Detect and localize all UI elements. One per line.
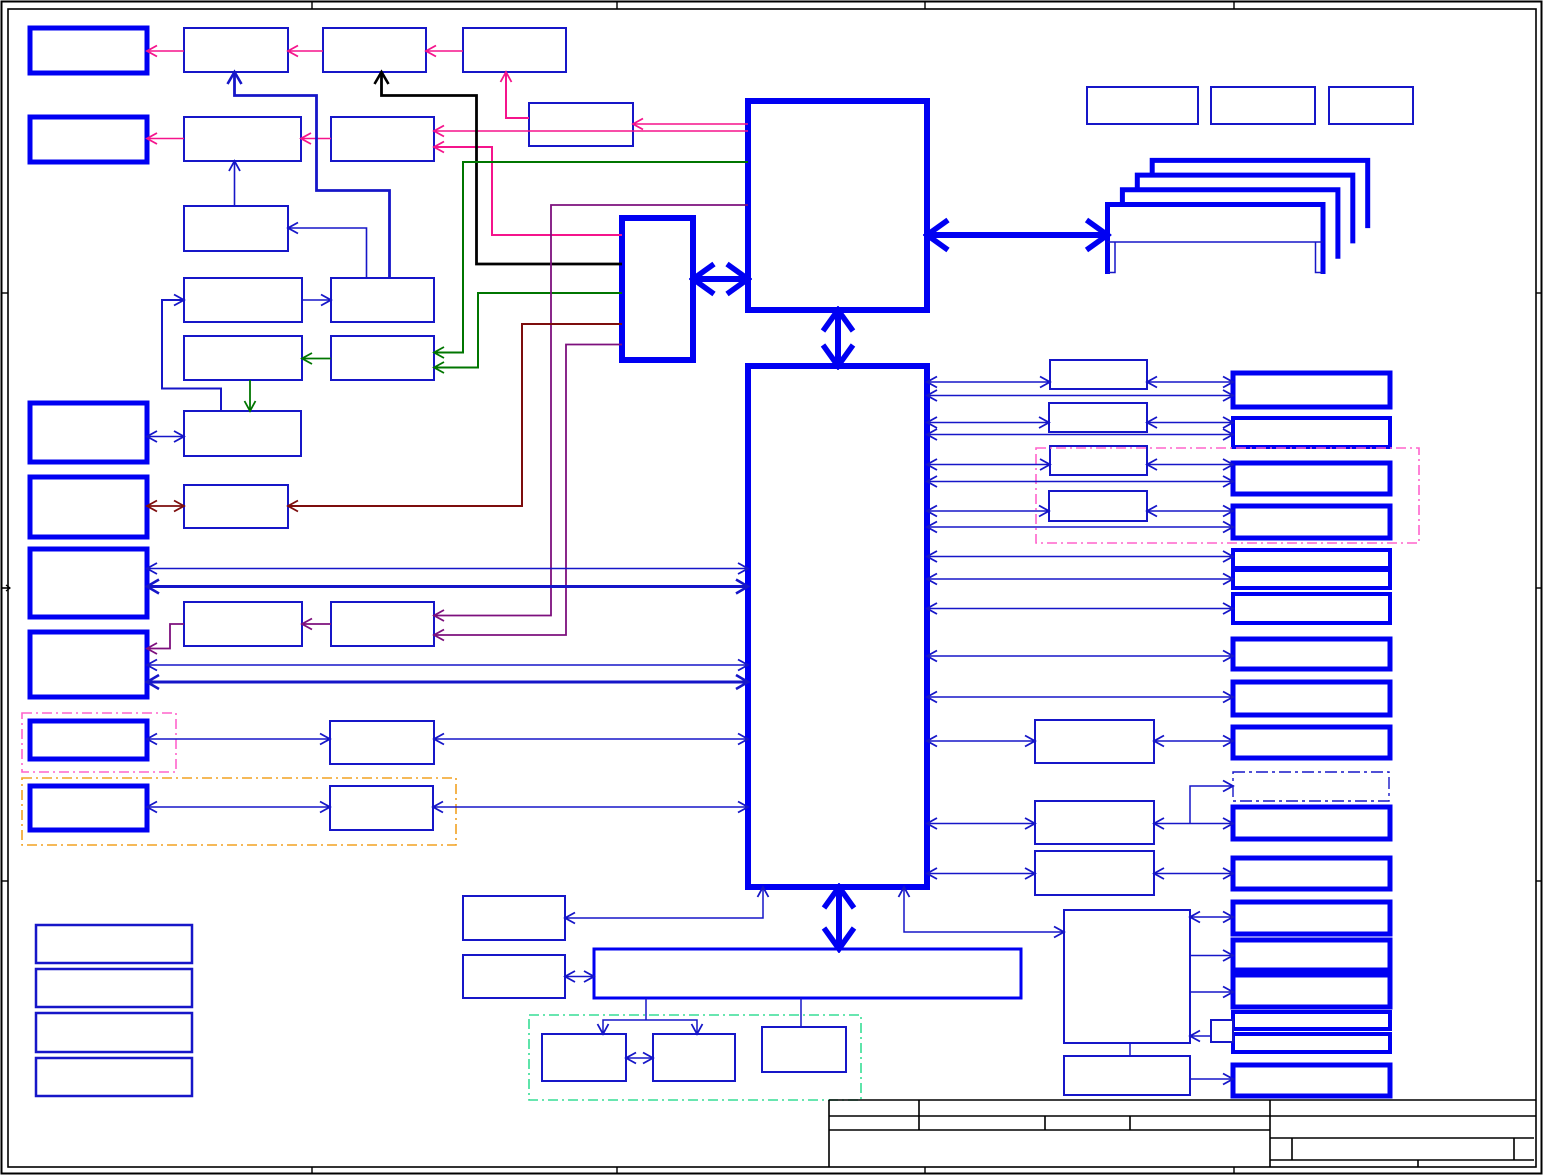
- wire pink B3 to B2: [301, 138, 331, 140]
- block D1: [184, 278, 302, 322]
- wire blue D2 to C1: [288, 228, 367, 278]
- block R15 (right column): [1233, 975, 1390, 1007]
- wire blue SB to M7: [927, 873, 1035, 875]
- block SQ (small connector box): [1211, 1020, 1233, 1042]
- wire blue SB to R8: [927, 655, 1233, 657]
- wire blue M2 to R2: [1147, 422, 1233, 424]
- frame zone tick right: [1536, 880, 1543, 882]
- wire blue SB to R7: [927, 608, 1233, 610]
- wire blue BAR to J3 stub: [800, 998, 802, 1027]
- block L1 (bottom left stack): [36, 925, 192, 963]
- wire blue F4 to SB thin: [147, 664, 748, 666]
- wire blue SB to M1: [927, 381, 1050, 383]
- wire blue K1 to R15: [1190, 991, 1233, 993]
- memory slot 3 (rear): [1137, 175, 1353, 243]
- dashed group box pink (around F5): [22, 713, 176, 772]
- block T1: [1087, 87, 1198, 124]
- block R5 (right column): [1233, 550, 1390, 568]
- frame zone tick top: [311, 2, 313, 10]
- wire thick CPU to memory slots bus: [927, 232, 1108, 238]
- wire thick EC to CPU bus: [693, 276, 748, 282]
- block F2 (left thick): [30, 477, 147, 537]
- wire blue H2 to SB: [433, 806, 748, 808]
- wire pink A2 to A1: [147, 50, 184, 52]
- wire purple G1b to G1a: [302, 623, 331, 625]
- frame zone tick bottom: [924, 1167, 926, 1175]
- block T2: [1211, 87, 1315, 124]
- wire blue F6 to H2: [147, 806, 330, 808]
- wire blue K2 to R18: [1190, 1078, 1233, 1080]
- wire maroon E2 to F2: [147, 505, 184, 507]
- wire thick SB to BAR bus: [836, 887, 842, 949]
- block R9 (right column): [1233, 682, 1390, 715]
- wire blue I2 to BAR: [565, 976, 594, 978]
- wire purple EC to G1b: [434, 345, 622, 636]
- block A4: [463, 28, 566, 72]
- block F6 (left thick in orange dashed group): [30, 786, 147, 830]
- block R8 (right column): [1233, 639, 1390, 669]
- block R14 (right column): [1233, 940, 1390, 970]
- block U2 EC (tall narrow thick): [622, 218, 693, 360]
- wire pink B2 to B1: [147, 138, 184, 140]
- wire blue SB to M2: [927, 422, 1049, 424]
- block K1 (bottom right large): [1064, 910, 1190, 1043]
- memory slot 2 (rear): [1122, 190, 1338, 259]
- frame zone tick left: [2, 292, 9, 294]
- title block right detail: [1270, 1138, 1534, 1167]
- frame zone tick right: [1536, 292, 1543, 294]
- wire green D4 to D3: [302, 358, 331, 360]
- block M4: [1049, 491, 1147, 521]
- wire blue SB to R9: [927, 696, 1233, 698]
- wire blue SB to R3 direct: [927, 481, 1233, 483]
- dashed box RD (right column reserved): [1233, 772, 1389, 801]
- wire green CPU to D4: [434, 162, 748, 353]
- wire blue K1 to R13: [1190, 916, 1233, 918]
- wire blue M4 to R4: [1147, 510, 1233, 512]
- wire blue SB to R6: [927, 578, 1233, 580]
- wire blue split to J1: [603, 1020, 646, 1034]
- block R4 (right column): [1233, 506, 1390, 538]
- block M1: [1050, 360, 1147, 389]
- wire blue D1 to D2: [302, 299, 331, 301]
- wire blue SQ to K1: [1190, 1035, 1211, 1037]
- wire blue F3 to SB thin: [147, 568, 748, 570]
- memory slot 4 (rear): [1152, 160, 1368, 228]
- wire blue M5 to R10: [1154, 740, 1233, 742]
- frame zone tick bottom: [616, 1167, 618, 1175]
- wire pink A3 to A2: [288, 50, 323, 52]
- wire blue SB to R1 direct: [927, 395, 1233, 397]
- frame zone tick top: [1233, 2, 1235, 10]
- wire pink CPU to B3: [434, 130, 748, 132]
- frame zone tick left: [2, 880, 9, 882]
- wire blue BAR to J1/J2 split: [645, 998, 647, 1020]
- wire green D3 to E1: [249, 380, 251, 411]
- block R10 (right column): [1233, 727, 1390, 758]
- block L3 (bottom left stack): [36, 1013, 192, 1052]
- block R6 (right column): [1233, 570, 1390, 588]
- block D4: [331, 336, 434, 380]
- wire purple G1a to F4: [147, 624, 184, 649]
- wire blue C1 to B2: [234, 161, 236, 206]
- block R18 (right column): [1233, 1065, 1390, 1096]
- block F4 (left thick): [30, 632, 147, 697]
- frame zone tick top: [616, 2, 618, 10]
- wire blue SB to M5: [927, 740, 1035, 742]
- wire black EC to A3: [382, 72, 623, 264]
- wire blue H1 to SB: [434, 738, 748, 740]
- block A3: [323, 28, 426, 72]
- block R1 (right column): [1233, 373, 1390, 407]
- frame zone tick right: [1536, 587, 1543, 589]
- dashed group box orange (around F6/H2): [22, 778, 456, 845]
- block B3: [331, 117, 434, 161]
- wire blue SB to M4: [927, 510, 1049, 512]
- wire blue SB to R5: [927, 556, 1233, 558]
- wire blue SB to K1: [904, 887, 1064, 932]
- block H2: [330, 786, 433, 830]
- wire pink EC to B3: [434, 147, 622, 235]
- wire blue M3 to R3: [1147, 464, 1233, 466]
- wire blue SB to R4 direct: [927, 526, 1233, 528]
- frame center mark left: [2, 585, 11, 591]
- block R12 (right column): [1233, 858, 1390, 889]
- block F5 (left thick in pink dashed group): [30, 721, 147, 759]
- block M5: [1035, 720, 1154, 763]
- block R3 (right column): [1233, 463, 1390, 494]
- block M6: [1035, 801, 1154, 844]
- frame zone tick top: [924, 2, 926, 10]
- block L2 (bottom left stack): [36, 969, 192, 1007]
- block G1b: [331, 602, 434, 646]
- block R7 (right column): [1233, 594, 1390, 623]
- block M7: [1035, 851, 1154, 895]
- wire maroon EC to E2: [288, 324, 622, 506]
- wire blue M7 to R12: [1154, 873, 1233, 875]
- memory slot 1 (front): [1108, 205, 1324, 275]
- wire blue F4 to SB thick: [147, 681, 748, 684]
- wire blue split to J2: [646, 1020, 697, 1034]
- wire pink CPU to SM: [633, 123, 748, 125]
- memory slot 1 inner line: [1108, 242, 1324, 273]
- wire blue M6 to R11: [1154, 823, 1233, 825]
- wire blue E1 to D1 loop: [162, 300, 221, 411]
- title block outline: [829, 1100, 1536, 1167]
- block U1 CPU (large thick): [748, 101, 927, 310]
- block T3: [1329, 87, 1413, 124]
- block L4 (bottom left stack): [36, 1058, 192, 1096]
- block U3 south bridge (large thick): [748, 366, 927, 887]
- block J3: [762, 1027, 846, 1072]
- block E2: [184, 485, 288, 528]
- wire blue F3 to SB thick: [147, 585, 748, 588]
- block I2: [463, 955, 565, 998]
- wire blue K1 to K2 stub: [1129, 1043, 1131, 1056]
- block D3: [184, 336, 302, 380]
- frame zone tick left: [2, 587, 9, 589]
- block F1 (left thick): [30, 403, 147, 462]
- block R17 (right column): [1233, 1034, 1390, 1052]
- wire blue M1 to R1: [1147, 381, 1233, 383]
- wire thick CPU to SB bus: [835, 310, 841, 366]
- block A1 (top-left thick): [30, 28, 147, 73]
- block F3 (left thick): [30, 549, 147, 617]
- block A2: [184, 28, 288, 72]
- frame zone tick bottom: [311, 1167, 313, 1175]
- wire blue K1 to R14: [1190, 955, 1233, 957]
- block M2: [1049, 403, 1147, 432]
- wire pink A4 to A3: [426, 50, 463, 52]
- wire blue D2 to A2: [235, 72, 390, 278]
- block C1: [184, 206, 288, 251]
- block BAR (long bottom bar): [594, 949, 1021, 998]
- wire blue SB to M6: [927, 823, 1035, 825]
- wire purple CPU to G1b: [434, 205, 748, 616]
- block H1: [330, 721, 434, 764]
- block B2: [184, 117, 301, 161]
- block G1a: [184, 602, 302, 646]
- block R2 (right column): [1233, 418, 1390, 447]
- block K2: [1064, 1056, 1190, 1095]
- block R16 (right column): [1233, 1012, 1390, 1029]
- frame zone tick bottom: [1233, 1167, 1235, 1175]
- wire pink SM to A4: [506, 72, 529, 118]
- block J2: [653, 1034, 735, 1081]
- block B1 (left thick row2): [30, 117, 147, 162]
- block J1: [542, 1034, 626, 1081]
- wire blue SB to I1: [565, 887, 763, 918]
- wire blue branch to dashed RD: [1190, 786, 1233, 824]
- wire blue SB to M3: [927, 464, 1050, 466]
- wire blue F1 to E1: [147, 436, 184, 438]
- wire blue SB to R2 direct: [927, 434, 1233, 436]
- wire blue F5 to H1: [147, 738, 330, 740]
- block R11 (right column): [1233, 807, 1390, 839]
- wire green EC to D4: [434, 293, 622, 368]
- block SM (clock gen): [529, 103, 633, 146]
- block I1: [463, 896, 565, 940]
- block E1: [184, 411, 301, 456]
- dashed group box green (around J1-J3): [529, 1015, 861, 1100]
- wire blue J1 to J2: [626, 1057, 653, 1059]
- block R13 (right column): [1233, 902, 1390, 934]
- block D2: [331, 278, 434, 322]
- dashed group box pink (right, around R3/R4): [1036, 448, 1419, 543]
- block M3: [1050, 446, 1147, 475]
